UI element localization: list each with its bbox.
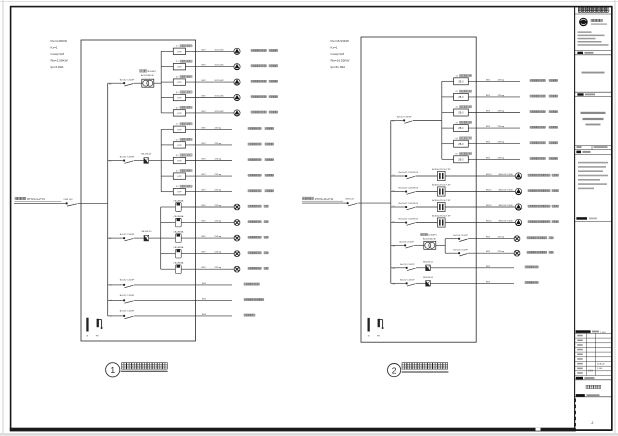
svg-text:BxC6x22 C20/3P+N: BxC6x22 C20/3P+N	[399, 203, 419, 205]
panel 1 incoming feeder wire	[14, 202, 64, 204]
panel 2 motor row 1 load description	[528, 174, 559, 176]
panel 2 N PE labels	[368, 336, 381, 338]
starter label 4# circulating pump	[176, 91, 192, 94]
svg-text:5#: 5#	[456, 138, 459, 140]
panel 2 motor row 1 wire	[391, 175, 403, 177]
svg-text:AC800-4T5.5L/T.3P: AC800-4T5.5L/T.3P	[432, 215, 451, 218]
svg-text:2X2mq: 2X2mq	[215, 236, 222, 238]
svg-text:BV3.5: BV3.5	[486, 221, 493, 223]
group A row 3 wire from sub-bus	[161, 81, 173, 83]
panel 2 motor row 2 wire to motor	[445, 191, 515, 193]
control row 2 wire	[391, 282, 404, 284]
svg-text:2#: 2#	[176, 139, 179, 141]
svg-text:2X2mq: 2X2mq	[215, 267, 222, 269]
lamp branch 1 wire	[445, 238, 456, 240]
lamp branch 2 circuit labels	[486, 251, 505, 253]
drawing title 2 callout bubble	[388, 364, 401, 377]
page outer faint left edge	[2, 0, 4, 433]
svg-text:BxC52 C16/3P: BxC52 C16/3P	[120, 157, 135, 159]
control row breaker QF10	[393, 279, 426, 286]
svg-text:2X2mq: 2X2mq	[215, 252, 222, 254]
svg-text:ZB-3: ZB-3	[458, 128, 464, 130]
panel 2 group A label	[456, 121, 472, 124]
lamp branch 2 wire to lamp	[468, 252, 514, 254]
svg-text:AC220 AC36: AC220 AC36	[423, 238, 436, 241]
title block left border	[574, 7, 576, 431]
svg-text:BxC52 C16/2P: BxC52 C16/2P	[454, 235, 469, 237]
svg-text:SC15-WC: SC15-WC	[215, 111, 225, 113]
soft starter U1 AC800	[432, 168, 451, 181]
wire: KM2 to group C sub-bus	[149, 237, 161, 239]
group B starter box STP8	[173, 157, 185, 163]
svg-text:RTJV3+4+2*1.5: RTJV3+4+2*1.5	[27, 198, 45, 201]
lamp EL2 (panel 2)	[514, 250, 520, 256]
control row 2 description	[525, 281, 538, 283]
svg-text:BxC6x22 C20/3P+N: BxC6x22 C20/3P+N	[399, 188, 419, 190]
spare row 3 wire to terminal	[134, 315, 232, 317]
group B row 1 load description	[248, 127, 274, 129]
panel 2 group A row 5 load description	[530, 142, 558, 144]
panel 2 motor breaker QF3	[393, 188, 438, 195]
group B row 4 circuit labels	[202, 174, 222, 176]
group B row 2 load description	[248, 143, 274, 145]
svg-text:STP: STP	[177, 82, 182, 84]
svg-text:u/v: u/v	[393, 205, 395, 207]
svg-text:BV3.5: BV3.5	[486, 174, 493, 176]
group C row 3 load description	[248, 236, 268, 238]
control box ZB-3 #5	[454, 140, 469, 147]
group C row 4 wire from sub-bus	[161, 253, 176, 255]
svg-text:-2: -2	[591, 421, 594, 425]
panel 2 group A row 1 wire out	[468, 80, 520, 82]
wire: T1 to group A sub-bus	[154, 82, 161, 84]
drawing title 2 text	[402, 363, 449, 372]
group B starter box STP6	[173, 126, 185, 132]
svg-text:2X3mq: 2X3mq	[498, 157, 505, 159]
svg-text:Kx=1: Kx=1	[51, 45, 58, 49]
panel 2 group A feed breaker QF1	[391, 117, 442, 124]
project name text	[581, 112, 606, 126]
bar: project label	[577, 52, 593, 54]
lamp branch breaker QF7	[454, 235, 469, 242]
group C row 4 wire to lamp	[181, 253, 234, 255]
spare breaker QF4	[110, 280, 135, 288]
fuse FU3 CBJ-BK6A	[173, 231, 184, 243]
control contactor SB-DW-12	[423, 262, 434, 271]
svg-text:d-d: d-d	[392, 121, 394, 123]
panel 2 motor breaker QF5	[393, 219, 438, 226]
spare row 2 description	[244, 299, 264, 301]
svg-text:BxC52 C16/2P: BxC52 C16/2P	[400, 264, 415, 266]
group B row 5 wire to terminal	[186, 191, 233, 193]
svg-text:d-d: d-d	[109, 238, 111, 240]
soft starter U2 AC800	[432, 184, 451, 197]
svg-text:BV3.5: BV3.5	[486, 205, 493, 207]
lamp EL3	[234, 235, 240, 241]
title block: company header strip	[578, 7, 610, 13]
svg-text:SB-DW-16: SB-DW-16	[423, 277, 434, 279]
panel 2 incoming cable label	[302, 197, 355, 201]
control row breaker QF9	[393, 264, 426, 271]
page border right edge overdraw	[611, 7, 613, 431]
panel 2 motor row 2 load description	[528, 190, 559, 192]
group A row 1 circuit labels	[202, 49, 225, 51]
motor starter box STP5	[173, 110, 185, 116]
panel 2 group A row 5 circuit labels	[486, 142, 505, 144]
page outer faint right edge	[614, 0, 616, 433]
group B row 2 wire from sub-bus	[161, 144, 173, 146]
control box ZB-3 #4	[454, 125, 469, 132]
control row 2 wire out	[430, 282, 514, 284]
svg-text:d-d: d-d	[109, 83, 111, 85]
fuse FU4 CBJ-BK6A	[173, 246, 184, 258]
group B row 4 load description	[248, 174, 274, 176]
svg-text:STP: STP	[177, 161, 182, 163]
lamp branch 2 wire	[445, 252, 456, 254]
svg-text:SB-DW-20: SB-DW-20	[141, 154, 152, 156]
notes list	[578, 162, 608, 189]
svg-text:CBJ-BK6A: CBJ-BK6A	[173, 199, 184, 202]
group C row 3 circuit labels	[202, 236, 222, 238]
design institute logo	[579, 18, 588, 27]
spare row 1 wire to terminal	[134, 284, 232, 286]
svg-text:Kx=1: Kx=1	[331, 45, 338, 49]
motor M2	[234, 64, 240, 71]
institute address lines	[578, 31, 609, 45]
svg-text:Ijs=3.80A: Ijs=3.80A	[50, 65, 64, 69]
svg-text:d-d: d-d	[393, 245, 395, 247]
panel 1 load calculation annotation	[50, 39, 67, 69]
group C row 4 load description	[248, 252, 268, 254]
group A row 5 circuit labels	[202, 111, 225, 113]
svg-text:2X3mq: 2X3mq	[498, 126, 505, 128]
svg-text:BxC52 C16/2P: BxC52 C16/2P	[454, 249, 469, 251]
panel 2 incoming feeder wire	[302, 202, 345, 204]
svg-text:STP: STP	[177, 176, 182, 178]
group B row 3 load description	[248, 159, 274, 161]
panel 1 group B sub-bus	[160, 129, 162, 191]
group C row 5 wire from sub-bus	[161, 268, 176, 270]
svg-text:5#: 5#	[176, 186, 179, 188]
group B row 1 wire to terminal	[186, 128, 233, 130]
svg-text:AC800-4T5.5L/T.3P: AC800-4T5.5L/T.3P	[432, 184, 451, 187]
wire: panel 2 incoming to main bus	[358, 202, 391, 204]
group C row 3 wire from sub-bus	[161, 237, 176, 239]
motor M3 (panel 2)	[515, 204, 521, 211]
svg-text:BxC6x22 C20/3P+N: BxC6x22 C20/3P+N	[399, 219, 419, 221]
svg-text:2X2mq: 2X2mq	[215, 159, 222, 161]
svg-text:BxC52 C16/3P: BxC52 C16/3P	[120, 79, 135, 81]
group A row 1 wire to motor	[186, 50, 234, 52]
svg-text:SC15-WC: SC15-WC	[215, 49, 225, 51]
panel 2 motor row 2 wire	[391, 191, 403, 193]
panel 2 group A label	[456, 137, 472, 140]
contactor KM2 SB-DW-20	[141, 231, 152, 241]
group A row 4 wire to motor	[186, 97, 234, 99]
group B starter label	[176, 154, 192, 157]
svg-text:BxC52 C16/2P: BxC52 C16/2P	[400, 241, 415, 243]
svg-text:1#: 1#	[456, 76, 459, 78]
panel 2 group A row 6 wire out	[468, 158, 520, 160]
svg-text:SC15-WC: SC15-WC	[215, 80, 225, 82]
group B starter label	[176, 185, 192, 188]
panel 2 main vertical bus	[390, 121, 392, 284]
svg-text:N: N	[87, 336, 89, 338]
group A row 2 wire from sub-bus	[161, 66, 173, 68]
svg-text:2#: 2#	[456, 91, 459, 93]
svg-text:2X2mq: 2X2mq	[215, 127, 222, 129]
svg-text:BV3.5: BV3.5	[486, 190, 493, 192]
panel 2 motor row 4 circuit labels	[486, 221, 513, 223]
sheet number box	[575, 399, 612, 431]
svg-text:SC15-WC: SC15-WC	[215, 96, 225, 98]
group A row 3 wire to motor	[186, 81, 234, 83]
svg-text:2#: 2#	[176, 61, 179, 63]
svg-text:ZB-3: ZB-3	[458, 113, 464, 115]
motor M5	[234, 110, 240, 117]
panel 2 group A sub-bus	[441, 81, 443, 159]
panel 1 incoming isolator QS0	[63, 202, 77, 206]
svg-text:BxC52 C16/3P: BxC52 C16/3P	[120, 234, 135, 236]
group A row 4 load description	[251, 96, 278, 98]
panel 2 motor row 3 wire to motor	[445, 206, 515, 208]
rectifier T1 B-300P1 AC220/AC36	[140, 70, 158, 87]
soft starter U3 AC800	[432, 199, 451, 212]
fuse FU5 CBJ-BK6A	[173, 262, 184, 274]
svg-text:ZB-3: ZB-3	[458, 144, 464, 146]
svg-text:2: 2	[392, 365, 397, 375]
svg-text:2X3mq: 2X3mq	[498, 79, 505, 81]
svg-text:SC15-WC: SC15-WC	[215, 65, 225, 67]
group C row 5 load description	[248, 267, 268, 269]
bar: notes header	[576, 151, 590, 154]
group B starter box STP10	[173, 189, 185, 195]
group C row 3 wire to lamp	[181, 237, 234, 239]
panel 2 motor breaker QF2	[393, 172, 438, 179]
svg-text:2X3mq: 2X3mq	[498, 111, 505, 113]
svg-text:380V+N 5.5kW: 380V+N 5.5kW	[499, 190, 513, 192]
panel 1 PE bar	[97, 319, 103, 329]
svg-text:Pe=2.00KW: Pe=2.00KW	[51, 39, 68, 43]
svg-text:/: /	[609, 9, 611, 13]
group A row 5 wire to motor	[186, 112, 234, 114]
svg-text:u/v: u/v	[393, 174, 395, 176]
svg-text:AC800-4T5.5L/T.3P: AC800-4T5.5L/T.3P	[432, 168, 451, 171]
svg-text:BxC52 C16/3P: BxC52 C16/3P	[120, 295, 135, 297]
panel 2 motor row 3 wire	[391, 206, 403, 208]
lamp branch 1 load description	[527, 237, 553, 239]
panel 2 group A row 3 wire out	[468, 112, 520, 114]
panel 2 load calculation annotation	[330, 39, 349, 69]
svg-text:2X2mq: 2X2mq	[215, 221, 222, 223]
fuse FU1 CBJ-BK6A	[173, 199, 184, 211]
svg-text:B-300P1: B-300P1	[428, 235, 437, 237]
motor M4 (panel 2)	[515, 219, 521, 226]
group B starter label	[176, 123, 192, 126]
svg-text:BxC52 C16/3P: BxC52 C16/3P	[397, 117, 412, 119]
control row 1 wire	[391, 267, 404, 269]
lamp branch 2 load description	[527, 251, 553, 253]
group C row 1 wire from sub-bus	[161, 206, 176, 208]
panel 2 motor row 3 circuit labels	[486, 205, 513, 207]
group B row 3 wire from sub-bus	[161, 160, 173, 162]
bar: revision table header	[576, 330, 607, 334]
lamp branch bracket bus	[444, 239, 446, 254]
panel 2 group A row 2 wire out	[468, 96, 520, 98]
drawing title 1 text	[121, 363, 168, 372]
panel 2 motor row 4 wire	[391, 222, 403, 224]
starter label 1# circulating pump	[176, 45, 192, 48]
svg-text:CBJ-BK6A: CBJ-BK6A	[173, 231, 184, 234]
group A row 5 load description	[251, 111, 278, 113]
svg-text:4#: 4#	[176, 171, 179, 173]
page outer faint top edge	[0, 1, 618, 3]
panel 1 incoming cable label	[15, 197, 74, 201]
panel 2 group A row 1 wire from sub-bus	[442, 80, 454, 82]
panel 2 motor row 2 circuit labels	[486, 190, 513, 192]
motor M4	[234, 94, 240, 101]
panel 2 motor row 1 circuit labels	[486, 174, 513, 176]
certificate line	[582, 72, 605, 74]
svg-text:CM3 100: CM3 100	[345, 199, 355, 201]
svg-text:ZB-3: ZB-3	[458, 81, 464, 83]
group A row 3 circuit labels	[202, 80, 225, 82]
svg-text:ZB-3: ZB-3	[458, 97, 464, 99]
panel 2 group A row 4 circuit labels	[486, 126, 505, 128]
lamp EL5	[234, 266, 240, 272]
group B row 4 wire to terminal	[186, 175, 233, 177]
control row 1 description	[525, 266, 538, 268]
svg-text:STP: STP	[177, 51, 182, 53]
svg-text:6#: 6#	[456, 154, 459, 156]
group B row 4 wire from sub-bus	[161, 175, 173, 177]
group B row 3 wire to terminal	[186, 160, 233, 162]
panel 1 N bar	[86, 318, 88, 332]
motor starter box STP4	[173, 94, 185, 100]
group A row 1 load description	[251, 49, 278, 51]
svg-text:380V+N 5.5kW: 380V+N 5.5kW	[499, 221, 513, 223]
svg-text:4#: 4#	[176, 92, 179, 94]
svg-text:380V+N 5.5kW: 380V+N 5.5kW	[499, 174, 513, 176]
spare row 3 description	[244, 314, 255, 316]
sub row: drawing scale cell	[577, 146, 608, 150]
motor M2 (panel 2)	[515, 188, 521, 195]
svg-text:1: 1	[110, 365, 115, 375]
spare breaker QF5	[110, 295, 135, 303]
control box ZB-3 #1	[454, 78, 469, 85]
svg-text:CBJ-BK6A: CBJ-BK6A	[173, 246, 184, 249]
svg-text:STP: STP	[177, 98, 182, 100]
control contactor SB-DW-16	[423, 277, 434, 286]
spare row 2 wire to terminal	[134, 299, 232, 301]
drawing title 1 callout bubble	[106, 363, 120, 377]
control box ZB-3 #2	[454, 93, 469, 100]
svg-text:1:100: 1:100	[597, 368, 603, 370]
svg-text:Cosφ=0.8: Cosφ=0.8	[51, 52, 65, 56]
contactor KM1 SB-DW-20	[141, 154, 152, 164]
svg-text:2X2mq: 2X2mq	[215, 190, 222, 192]
svg-text:SB-DW-20: SB-DW-20	[141, 231, 152, 233]
svg-text:1:100: 1:100	[600, 332, 606, 334]
svg-text:1#: 1#	[176, 46, 179, 48]
desk strip below page	[0, 433, 618, 435]
svg-text:STP: STP	[177, 145, 182, 147]
motor M1	[234, 48, 240, 55]
svg-text:STP: STP	[177, 192, 182, 194]
panel 2 group A label	[456, 90, 472, 93]
svg-text:2X2mq: 2X2mq	[215, 205, 222, 207]
svg-text:STP: STP	[177, 67, 182, 69]
wire: KM1 to group B sub-bus	[149, 160, 162, 162]
svg-text:Cosφ=0.8: Cosφ=0.8	[331, 52, 345, 56]
svg-text:d-d: d-d	[110, 300, 112, 302]
panel 2 group A row 2 circuit labels	[486, 95, 505, 97]
panel 1 main vertical bus	[107, 83, 109, 316]
starter label 5# circulating pump	[176, 106, 192, 109]
panel 2 group A label	[456, 106, 472, 109]
svg-text:Pe=16.53KW: Pe=16.53KW	[331, 39, 349, 43]
motor starter box STP2	[173, 64, 185, 70]
svg-text:u/v: u/v	[393, 221, 395, 223]
svg-text:4#: 4#	[456, 122, 459, 124]
svg-text:Pjs=16.53KW: Pjs=16.53KW	[331, 58, 350, 62]
N PE labels	[87, 336, 100, 338]
group C row 2 load description	[248, 221, 268, 223]
group A feed breaker QF1	[108, 79, 142, 86]
lamp EL4	[234, 251, 240, 257]
svg-text:BxC52 C16/2P: BxC52 C16/2P	[400, 279, 415, 281]
control box ZB-3 #3	[454, 109, 469, 116]
panel 2 group A row 6 load description	[530, 157, 558, 159]
panel 2 group A row 3 load description	[530, 111, 558, 113]
svg-text:2X2mq: 2X2mq	[215, 143, 222, 145]
svg-text:2X3mq: 2X3mq	[498, 95, 505, 97]
svg-text:2X2mq: 2X2mq	[215, 174, 222, 176]
spare row 2 wire	[108, 299, 121, 301]
svg-text:2X2mq: 2X2mq	[498, 237, 505, 239]
panel 2 group A row 4 wire out	[468, 127, 520, 129]
panel 1 group C sub-bus	[160, 207, 162, 269]
svg-text:CM3 100: CM3 100	[64, 199, 74, 201]
group A row 1 wire from sub-bus	[161, 50, 173, 52]
soft starter U4 AC800	[432, 215, 451, 228]
svg-text:AC220 AC36: AC220 AC36	[141, 74, 154, 77]
svg-text:3#: 3#	[176, 155, 179, 157]
panel 2 group A row 3 wire from sub-bus	[442, 112, 454, 114]
starter label 3# circulating pump	[176, 76, 192, 79]
svg-text:N: N	[368, 336, 370, 338]
lamp EL2	[234, 220, 240, 226]
lamp branch breaker QF8	[454, 249, 469, 256]
panel 2 group A row 6 circuit labels	[486, 157, 505, 159]
svg-text:380V+N 5.5kW: 380V+N 5.5kW	[499, 205, 513, 207]
control row 1 wire out	[430, 267, 514, 269]
panel 2 cabinet enclosure frame	[361, 37, 476, 342]
spare breaker QF6	[110, 311, 135, 319]
bar: legend header	[576, 217, 597, 220]
panel 2 incoming isolator QS0	[344, 202, 357, 206]
group C row 2 wire to lamp	[181, 222, 234, 224]
group C row 5 circuit labels	[202, 267, 222, 269]
svg-text:RTJV3+16+2*10: RTJV3+16+2*10	[315, 198, 334, 201]
group B feed breaker QF2	[108, 157, 144, 164]
panel 2 group A row 4 load description	[530, 126, 558, 128]
panel 2 lamp feed breaker QF6	[391, 241, 424, 248]
group A row 3 load description	[251, 80, 278, 82]
svg-text:AC800-4T5.5L/T.3P: AC800-4T5.5L/T.3P	[432, 199, 451, 202]
svg-text:u/v: u/v	[393, 190, 395, 192]
thick bottom border bar	[10, 428, 576, 432]
